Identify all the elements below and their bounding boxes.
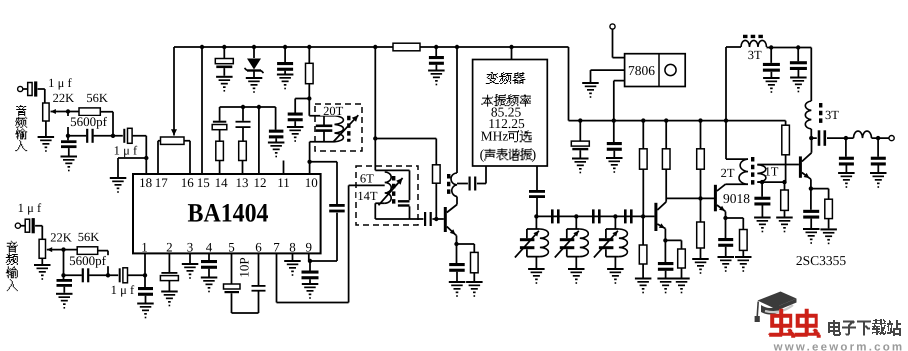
svg-text:BA1404: BA1404	[188, 198, 269, 228]
svg-text:12: 12	[254, 175, 267, 190]
svg-text:11: 11	[277, 175, 290, 190]
svg-text:17: 17	[155, 175, 169, 190]
svg-text:): )	[531, 148, 536, 163]
svg-text:1μf: 1μf	[111, 283, 138, 297]
svg-text:56K: 56K	[86, 91, 108, 105]
svg-text:7806: 7806	[628, 63, 655, 78]
svg-text:1μf: 1μf	[114, 143, 141, 157]
svg-text:13: 13	[236, 175, 249, 190]
svg-text:9: 9	[306, 240, 313, 255]
svg-text:1: 1	[141, 240, 148, 255]
svg-text:(: (	[480, 148, 485, 163]
svg-text:2: 2	[166, 240, 173, 255]
svg-text:14T: 14T	[357, 189, 378, 203]
svg-text:2SC3355: 2SC3355	[796, 253, 847, 268]
svg-text:3T: 3T	[825, 108, 839, 122]
svg-text:20T: 20T	[323, 104, 344, 118]
svg-text:4: 4	[206, 240, 213, 255]
svg-text:9018: 9018	[723, 191, 750, 206]
svg-text:1T: 1T	[765, 165, 779, 179]
svg-text:8: 8	[289, 240, 296, 255]
svg-text:5600pf: 5600pf	[70, 114, 108, 129]
svg-text:3: 3	[187, 240, 194, 255]
svg-text:3T: 3T	[748, 48, 762, 62]
svg-text:16: 16	[181, 175, 195, 190]
svg-text:MHz: MHz	[481, 129, 509, 144]
svg-text:10: 10	[305, 175, 318, 190]
svg-text:14: 14	[215, 175, 229, 190]
svg-text:56K: 56K	[78, 230, 100, 244]
svg-text:10P: 10P	[237, 257, 252, 277]
svg-text:1μf: 1μf	[18, 201, 45, 215]
svg-text:18: 18	[139, 175, 152, 190]
svg-text:5600pf: 5600pf	[69, 253, 107, 268]
svg-text:6: 6	[255, 240, 262, 255]
svg-text:15: 15	[197, 175, 210, 190]
svg-text:22K: 22K	[50, 230, 72, 244]
svg-text:22K: 22K	[53, 91, 75, 105]
svg-text:2T: 2T	[721, 166, 735, 180]
svg-text:5: 5	[228, 240, 235, 255]
svg-text:7: 7	[273, 240, 280, 255]
svg-text:www.eeworm.com: www.eeworm.com	[773, 342, 905, 351]
svg-text:6T: 6T	[360, 172, 374, 186]
svg-text:1μf: 1μf	[48, 76, 75, 90]
